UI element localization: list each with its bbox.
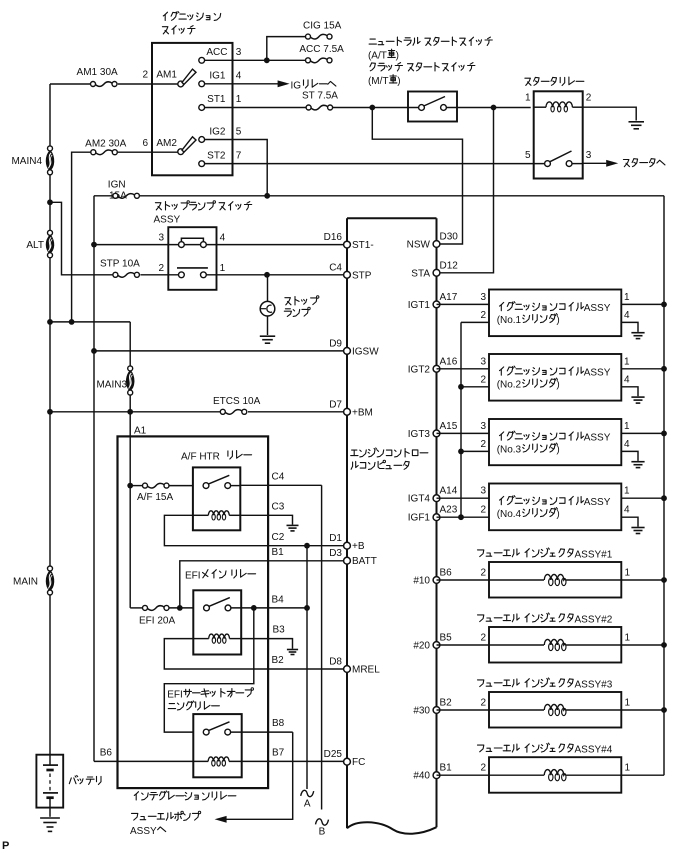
node bus coil No.1 xyxy=(661,302,667,308)
fuel injector ASSY#2 label xyxy=(478,613,613,626)
node coil pin2 bus junction No.2 xyxy=(458,384,464,390)
svg-text:C3: C3 xyxy=(272,502,285,513)
svg-text:AM2 30A: AM2 30A xyxy=(85,138,126,149)
svg-text:5: 5 xyxy=(525,150,531,161)
svg-text:ASSY#2: ASSY#2 xyxy=(575,615,613,626)
svg-text:A: A xyxy=(304,799,311,810)
ECU pin IGT3 connector A15 xyxy=(408,421,458,440)
svg-text:B6: B6 xyxy=(100,747,113,758)
ignition coil No.3 label xyxy=(497,431,611,456)
fuse STP 10A xyxy=(100,259,140,278)
fusible link ALT xyxy=(26,230,53,257)
svg-text:4: 4 xyxy=(624,505,630,516)
wire ST2 to starter relay xyxy=(205,163,545,165)
svg-text:A1: A1 xyxy=(134,426,147,437)
svg-text:B8: B8 xyxy=(272,718,285,729)
A/F HTR relay coil xyxy=(193,511,240,520)
ignition switch SW1 box xyxy=(152,43,233,175)
wire stop lamp to ground xyxy=(267,316,269,335)
ECU pin BATT connector D3 xyxy=(329,548,377,567)
ECU pin #10 connector B6 xyxy=(413,568,452,587)
wire injector #3 pin 2 xyxy=(437,698,545,711)
node bus coil No.2 xyxy=(661,366,667,372)
node ACC junction xyxy=(264,57,270,63)
svg-text:2: 2 xyxy=(142,70,148,81)
ECU pin MREL connector D8 xyxy=(329,657,380,676)
node IGF1 junction xyxy=(458,514,464,520)
wire C3 to ground xyxy=(240,502,292,525)
arrow to fuel pump xyxy=(130,811,227,837)
injector #4 coil xyxy=(544,770,566,781)
fuel injector #3 box xyxy=(489,692,621,728)
svg-text:3: 3 xyxy=(480,292,486,303)
fuel injector #1 box xyxy=(489,562,621,598)
ECU pin #30 connector B2 xyxy=(413,698,452,717)
svg-text:2: 2 xyxy=(480,698,486,709)
svg-text:4: 4 xyxy=(624,374,630,385)
svg-text:No.2: No.2 xyxy=(500,380,522,391)
svg-text:1: 1 xyxy=(525,93,531,104)
wire IGN to B6 corner xyxy=(94,760,96,762)
ECU pin IGT4 connector A14 xyxy=(408,486,458,505)
wire battery bus xyxy=(49,84,51,755)
svg-text:B1: B1 xyxy=(440,763,453,774)
svg-text:6: 6 xyxy=(142,138,148,149)
node stop lamp branch xyxy=(264,272,270,278)
svg-text:2: 2 xyxy=(586,93,592,104)
circuit opening relay switch xyxy=(203,722,230,735)
wire IG2 to IGN line xyxy=(205,140,268,196)
neutral start switch box xyxy=(408,92,457,122)
wire IGT2 to coil pin 3 xyxy=(437,356,490,369)
svg-text:STA: STA xyxy=(411,268,430,279)
page letter P xyxy=(2,840,9,852)
wire coil to B2 MREL xyxy=(164,639,343,669)
svg-text:3: 3 xyxy=(586,150,592,161)
svg-text:B3: B3 xyxy=(273,625,286,636)
svg-text:4: 4 xyxy=(624,439,630,450)
svg-text:2: 2 xyxy=(158,263,164,274)
EFI main relay label xyxy=(185,570,256,582)
svg-text:IGT3: IGT3 xyxy=(408,429,431,440)
node bus injector #3 xyxy=(661,707,667,713)
svg-text:1: 1 xyxy=(236,94,242,105)
svg-text:D9: D9 xyxy=(329,338,342,349)
wire injector #2 pin 2 xyxy=(437,633,545,646)
ECU pin IGF1 connector A23 xyxy=(408,505,458,524)
svg-text:#20: #20 xyxy=(413,641,430,652)
fuse ACC 7.5A xyxy=(299,44,344,63)
svg-text:4: 4 xyxy=(624,310,630,321)
wire starter relay pin2 to ground xyxy=(583,107,637,120)
svg-text:1: 1 xyxy=(624,486,630,497)
ECU pin FC connector D25 xyxy=(324,749,366,768)
fuse AM1 30A xyxy=(77,67,118,87)
wire coil No.2 pin 2 xyxy=(461,374,489,387)
ECU pin +BM connector D7 xyxy=(329,399,373,418)
wire injector #2 pin 1 to bus xyxy=(566,633,664,646)
wire C4 output xyxy=(231,472,322,486)
ECU pin ST1- connector D16 xyxy=(324,232,374,251)
wire IGN vertical to D16 D9 B6 xyxy=(93,196,95,762)
svg-text:MAIN: MAIN xyxy=(13,577,38,588)
svg-text:B1: B1 xyxy=(272,547,285,558)
svg-text:A/T: A/T xyxy=(371,51,387,62)
svg-text:STP: STP xyxy=(352,270,372,281)
ignition switch label xyxy=(162,11,220,34)
wire neutral to starter relay xyxy=(446,107,530,109)
svg-text:IG1: IG1 xyxy=(209,70,226,81)
ignition coil ASSY No.3 box xyxy=(489,419,621,465)
pin B6 label xyxy=(100,747,113,758)
wire cross to MAIN3 xyxy=(50,322,130,366)
svg-text:4: 4 xyxy=(236,70,242,81)
node coil pin2 bus junction No.3 xyxy=(458,449,464,455)
wire AM1 feed xyxy=(50,83,178,85)
svg-text:MAIN4: MAIN4 xyxy=(11,156,42,167)
svg-text:2: 2 xyxy=(480,310,486,321)
wire A/F fuse line xyxy=(130,485,193,487)
fusible link MAIN3 xyxy=(96,366,134,395)
svg-text:#40: #40 xyxy=(413,771,430,782)
pin B7 label xyxy=(272,747,285,758)
circuit opening relay coil xyxy=(95,757,343,766)
svg-text:1: 1 xyxy=(624,356,630,367)
svg-text:7: 7 xyxy=(236,150,242,161)
node bus coil No.4 xyxy=(661,495,667,501)
svg-text:1: 1 xyxy=(624,292,630,303)
EFI main relay switch xyxy=(204,598,231,611)
svg-text:D8: D8 xyxy=(329,657,342,668)
injector #1 coil xyxy=(544,574,566,585)
fuel injector ASSY#1 label xyxy=(478,548,613,561)
svg-text:B7: B7 xyxy=(272,747,285,758)
svg-text:2: 2 xyxy=(480,439,486,450)
svg-text:IGF1: IGF1 xyxy=(408,513,431,524)
wire injector #4 pin 1 to bus xyxy=(566,763,664,776)
svg-text:+B: +B xyxy=(352,541,365,552)
EFI circuit opening relay label xyxy=(167,688,253,710)
ground coil No.3 xyxy=(631,462,644,468)
ECU pin #40 connector B1 xyxy=(413,763,452,782)
svg-text:No.1: No.1 xyxy=(500,315,522,326)
wire B8 to fuel pump xyxy=(226,718,293,819)
wire B3 to ground xyxy=(241,625,292,649)
svg-text:A23: A23 xyxy=(440,505,458,516)
stop switch contacts pins 3 4 xyxy=(158,233,225,248)
node bus to STP branch xyxy=(47,199,53,205)
svg-text:ACC 7.5A: ACC 7.5A xyxy=(299,44,344,55)
svg-text:NSW: NSW xyxy=(407,240,431,251)
ECU pin STA connector D12 xyxy=(411,260,458,279)
svg-text:A/F 15A: A/F 15A xyxy=(137,492,173,503)
svg-text:No.4: No.4 xyxy=(500,509,522,520)
engine control computer label xyxy=(351,448,428,470)
ignition coil No.2 label xyxy=(497,366,611,391)
svg-text:3: 3 xyxy=(158,233,164,244)
ignition terminal AM1 pin 2 xyxy=(142,69,196,87)
wire coil No.2 pin 4 to ground xyxy=(621,374,638,396)
svg-text:ST1-: ST1- xyxy=(352,240,374,251)
svg-text:2: 2 xyxy=(480,505,486,516)
svg-text:D3: D3 xyxy=(329,548,342,559)
wire coil No.1 pin 1 to bus xyxy=(621,292,664,305)
wire injector #1 pin 1 to bus xyxy=(566,568,664,581)
ground battery xyxy=(40,818,60,831)
svg-text:D16: D16 xyxy=(324,232,343,243)
wire to stop lamp xyxy=(267,275,269,302)
svg-text:2: 2 xyxy=(480,633,486,644)
wire ST1- D16 line xyxy=(94,244,344,246)
svg-text:): ) xyxy=(396,51,399,62)
svg-text:ALT: ALT xyxy=(26,240,44,251)
svg-text:1: 1 xyxy=(220,263,226,274)
stop lamp bulb xyxy=(260,296,319,317)
injector #3 coil xyxy=(544,704,566,715)
starter relay label xyxy=(525,77,584,85)
fuse ST 7.5A xyxy=(302,90,338,110)
svg-text:AM1: AM1 xyxy=(156,70,177,81)
wire CIG branch xyxy=(267,37,308,61)
svg-text:M/T: M/T xyxy=(371,76,388,87)
ignition coil ASSY No.4 box xyxy=(489,484,621,531)
wire starter output xyxy=(572,162,606,164)
arrow to starter xyxy=(606,159,665,167)
node bus injector #1 xyxy=(661,577,667,583)
svg-text:C4: C4 xyxy=(272,472,285,483)
svg-text:): ) xyxy=(556,315,559,326)
svg-text:ASSY: ASSY xyxy=(154,215,181,226)
stop lamp switch label xyxy=(154,201,252,226)
svg-text:MAIN3: MAIN3 xyxy=(96,380,127,391)
fusible link MAIN xyxy=(13,566,54,595)
ECU pin NSW connector D30 xyxy=(407,232,459,251)
wire coil No.1 pin 2 xyxy=(461,310,489,323)
ignition terminal AM2 pin 6 xyxy=(142,137,196,155)
node ETCS taps xyxy=(47,409,133,415)
svg-text:ASSY: ASSY xyxy=(584,433,611,444)
wire NSW D30 xyxy=(372,108,462,245)
wire coil No.1 pin 4 to ground xyxy=(621,310,638,332)
svg-text:BATT: BATT xyxy=(352,556,377,567)
fuel injector #2 box xyxy=(489,627,621,663)
svg-text:): ) xyxy=(397,76,400,87)
fuel injector ASSY#4 label xyxy=(478,743,613,756)
svg-text:No.3: No.3 xyxy=(500,445,522,456)
ignition terminal ST1 pin 1 xyxy=(199,94,242,110)
fuel injector ASSY#3 label xyxy=(478,678,613,691)
svg-text:EFI: EFI xyxy=(167,690,183,701)
node neutral branch xyxy=(369,105,375,111)
ignition coil No.4 label xyxy=(497,496,611,521)
svg-text:): ) xyxy=(556,509,559,520)
svg-text:A16: A16 xyxy=(440,356,458,367)
fuel injector #4 box xyxy=(489,757,621,793)
wire coil No.3 pin 2 xyxy=(461,439,489,452)
wire EFI fuse line xyxy=(130,607,193,609)
svg-text:B6: B6 xyxy=(440,568,453,579)
battery xyxy=(36,755,101,817)
EFI main relay coil xyxy=(193,634,241,643)
ECU pin IGSW connector D9 xyxy=(329,338,379,357)
stop switch contacts pins 2 1 xyxy=(158,263,225,278)
svg-text:D30: D30 xyxy=(440,232,459,243)
svg-text:1: 1 xyxy=(625,633,631,644)
ground C3 xyxy=(287,525,299,531)
starter relay coil xyxy=(525,93,592,112)
svg-text:AM2: AM2 xyxy=(156,138,177,149)
A/F HTR relay switch xyxy=(203,475,231,488)
ignition coil ASSY No.2 box xyxy=(489,354,621,401)
svg-text:A14: A14 xyxy=(440,486,458,497)
wire coil No.2 pin 1 to bus xyxy=(621,356,664,369)
wire A1 vertical xyxy=(129,436,131,608)
wire MAIN3 to A1 xyxy=(129,395,131,436)
svg-text:#10: #10 xyxy=(413,576,430,587)
svg-text:D1: D1 xyxy=(329,533,342,544)
wire IGT3 to coil pin 3 xyxy=(437,421,490,434)
ECU pin IGT2 connector A16 xyxy=(408,356,458,375)
svg-text:A15: A15 xyxy=(440,421,458,432)
ignition terminal IG1 pin 4 xyxy=(199,70,242,86)
svg-text:4: 4 xyxy=(220,233,226,244)
ground starter relay xyxy=(629,122,645,129)
svg-text:B2: B2 xyxy=(440,698,453,709)
svg-text:#30: #30 xyxy=(413,706,430,717)
EFI circuit opening relay box xyxy=(193,714,241,777)
ECU pin IGT1 connector A17 xyxy=(408,292,458,311)
wire coil No.4 pin 4 to ground xyxy=(621,505,638,527)
svg-text:D12: D12 xyxy=(440,260,459,271)
node D16 tap xyxy=(91,242,97,248)
ignition terminal IG2 pin 5 xyxy=(199,127,242,143)
node STA branch xyxy=(491,105,497,111)
wire injector #4 pin 2 xyxy=(437,763,545,776)
svg-text:CIG 15A: CIG 15A xyxy=(303,20,342,31)
ignition coil ASSY No.1 box xyxy=(489,290,621,337)
svg-text:ASSY: ASSY xyxy=(130,826,157,837)
injector #2 coil xyxy=(544,639,566,650)
svg-text:EFI: EFI xyxy=(185,571,201,582)
svg-text:MREL: MREL xyxy=(352,665,380,676)
node EFI fuse to B1 xyxy=(177,605,183,611)
fuse A/F 15A xyxy=(137,483,173,503)
svg-text:ASSY: ASSY xyxy=(584,303,611,314)
wire B1 BATT line xyxy=(180,547,344,608)
svg-text:ASSY#4: ASSY#4 xyxy=(575,745,613,756)
svg-text:IG: IG xyxy=(291,81,302,92)
svg-text:ASSY: ASSY xyxy=(584,497,611,508)
ground B3 xyxy=(287,650,298,655)
svg-text:3: 3 xyxy=(480,486,486,497)
svg-text:3: 3 xyxy=(236,47,242,58)
wire IGN fuse line xyxy=(94,195,664,197)
svg-text:1: 1 xyxy=(625,763,631,774)
svg-text:ETCS 10A: ETCS 10A xyxy=(213,396,261,407)
wire STA D12 xyxy=(440,108,494,273)
ECU pin STP connector C4 xyxy=(329,262,372,281)
svg-text:+BM: +BM xyxy=(352,407,373,418)
node bus coil No.3 xyxy=(661,431,667,437)
wire +B branch to break A xyxy=(306,546,308,789)
pin A1 xyxy=(134,426,147,437)
neutral switch contacts xyxy=(419,97,447,111)
svg-text:2: 2 xyxy=(480,763,486,774)
svg-text:2: 2 xyxy=(480,568,486,579)
stop lamp switch box xyxy=(168,227,216,290)
wire coil pin2 bus xyxy=(460,322,462,517)
svg-text:IG2: IG2 xyxy=(209,127,226,138)
svg-text:C2: C2 xyxy=(272,532,285,543)
wire coil No.4 pin 1 to bus xyxy=(621,486,664,499)
svg-text:): ) xyxy=(556,380,559,391)
wire coil No.3 pin 4 to ground xyxy=(621,439,638,461)
wire STP feed dogleg xyxy=(50,202,113,274)
engine control computer box xyxy=(347,218,437,834)
svg-text:IGN: IGN xyxy=(108,180,126,191)
ignition terminal ST2 pin 7 xyxy=(199,150,242,166)
svg-text:ST2: ST2 xyxy=(207,150,226,161)
wire coil to C2 +B xyxy=(164,515,343,545)
ignition coil No.1 label xyxy=(497,302,611,327)
svg-text:1: 1 xyxy=(624,421,630,432)
svg-text:ASSY: ASSY xyxy=(584,368,611,379)
ECU pin +B connector D1 xyxy=(329,533,365,552)
wire AM2 feed xyxy=(72,152,178,322)
node D9 tap xyxy=(91,348,97,354)
ground coil No.4 xyxy=(631,528,644,534)
break symbol B xyxy=(316,819,329,838)
node IG2 feed xyxy=(264,193,270,199)
svg-text:D7: D7 xyxy=(329,399,342,410)
fuse AM2 30A xyxy=(85,138,126,154)
neutral start switch label xyxy=(368,37,492,87)
wire ST1 line xyxy=(205,107,419,109)
fuse IGN 15A xyxy=(108,180,140,202)
fuse EFI 20A xyxy=(139,605,175,626)
svg-text:AM1 30A: AM1 30A xyxy=(77,67,118,78)
svg-text:2: 2 xyxy=(480,374,486,385)
wire IGSW D9 line xyxy=(94,350,344,352)
break symbol A xyxy=(301,790,314,809)
wire injector #3 pin 1 to bus xyxy=(566,698,664,711)
svg-text:STP 10A: STP 10A xyxy=(100,259,140,270)
ground stop lamp xyxy=(260,336,275,343)
wire injector #1 pin 2 xyxy=(437,568,545,581)
wire IGT4 to coil pin 3 xyxy=(437,486,490,499)
node +B branch xyxy=(304,543,310,549)
wire IG1 to IG relay xyxy=(205,83,278,85)
wire B4 output xyxy=(231,595,307,608)
svg-text:ASSY#1: ASSY#1 xyxy=(575,550,613,561)
starter relay box xyxy=(534,91,583,178)
wire IGT1 to coil pin 3 xyxy=(437,292,490,305)
svg-text:B5: B5 xyxy=(440,633,453,644)
ground coil No.2 xyxy=(631,397,644,403)
svg-text:ST 7.5A: ST 7.5A xyxy=(302,90,338,101)
svg-text:EFI 20A: EFI 20A xyxy=(139,616,175,627)
svg-text:1: 1 xyxy=(625,568,631,579)
svg-text:D25: D25 xyxy=(324,749,343,760)
svg-text:B: B xyxy=(319,827,326,838)
wire coil No.3 pin 1 to bus xyxy=(621,421,664,434)
svg-text:IGT1: IGT1 xyxy=(408,300,431,311)
svg-text:3: 3 xyxy=(480,356,486,367)
svg-text:IGSW: IGSW xyxy=(352,346,379,357)
ignition terminal ACC pin 3 xyxy=(199,47,242,63)
wire IGF1 to coil pin 2 xyxy=(437,505,490,518)
arrow to IG relay xyxy=(278,80,336,92)
